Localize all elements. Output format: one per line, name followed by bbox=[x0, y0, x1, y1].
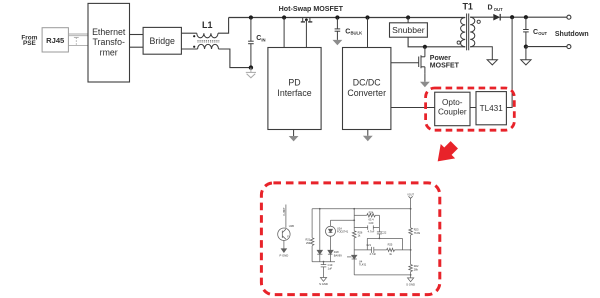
capacitor CBULK bbox=[335, 18, 341, 40]
wire Ethernet Transformer to Bridge (bottom) bbox=[130, 46, 144, 48]
resistor R21 bbox=[306, 209, 314, 262]
transistor hot-swap MOSFET symbol bbox=[301, 18, 313, 22]
svg-text:Power: Power bbox=[430, 55, 451, 62]
wire L1 bottom output to CIN bottom node bbox=[218, 49, 251, 68]
svg-text:R24: R24 bbox=[369, 211, 374, 215]
wire node A vertical bbox=[353, 209, 355, 231]
transistor U2B phototransistor lead bbox=[285, 205, 287, 228]
label COUT bbox=[533, 29, 547, 36]
capacitor (stub between RJ45 pair) bbox=[74, 37, 79, 45]
svg-text:R25: R25 bbox=[388, 242, 393, 246]
wire bottom bus bbox=[354, 274, 410, 276]
wire to bottom output terminal bbox=[526, 46, 567, 48]
terminal output plus bbox=[567, 15, 571, 19]
wire Bridge to L1 (bottom) bbox=[181, 48, 197, 50]
ground below power MOSFET bbox=[420, 74, 430, 88]
svg-text:OUT: OUT bbox=[494, 7, 503, 12]
block Ethernet Transformer bbox=[88, 3, 130, 82]
wire Opto-Coupler to TL431 bbox=[470, 107, 476, 109]
node junction DC/DC tap bbox=[365, 15, 369, 19]
svg-text:28k: 28k bbox=[414, 267, 419, 271]
wire RJ45 to Ethernet Transformer (bottom) bbox=[68, 45, 88, 47]
shunt reference U4 TL431 bbox=[347, 255, 367, 275]
node junction CBULK top bbox=[335, 15, 339, 19]
svg-text:S GND: S GND bbox=[319, 282, 328, 286]
transformer T1 primary phase dot bbox=[457, 41, 460, 44]
svg-text:C22: C22 bbox=[382, 230, 387, 234]
svg-text:OUT: OUT bbox=[538, 31, 547, 36]
block Snubber bbox=[390, 23, 428, 37]
label Power MOSFET bbox=[430, 55, 460, 69]
svg-text:Hot-Swap MOSFET: Hot-Swap MOSFET bbox=[279, 5, 344, 13]
diode D17 bbox=[317, 208, 322, 262]
block DC/DC Converter bbox=[343, 48, 391, 130]
detailed schematic group bbox=[278, 194, 421, 287]
block TL431 bbox=[476, 92, 506, 125]
highlight box around Opto-Coupler and TL431 bbox=[426, 88, 515, 130]
node junction COUT bottom bbox=[524, 45, 528, 49]
capacitor CIN bbox=[248, 18, 254, 68]
resistor R22 bbox=[409, 249, 419, 275]
wire output rail bbox=[500, 16, 567, 18]
svg-text:T1: T1 bbox=[462, 1, 473, 11]
node junction snubber tap bbox=[406, 15, 410, 19]
wire rail to PD Interface bbox=[283, 18, 285, 48]
inductor L1 top winding bbox=[193, 33, 218, 38]
node junction drain bbox=[423, 45, 427, 49]
node junction CIN bottom bbox=[249, 65, 253, 69]
svg-text:4.7nF: 4.7nF bbox=[369, 252, 376, 256]
node junction COUT top bbox=[524, 15, 528, 19]
block Opto-Coupler bbox=[435, 92, 470, 126]
svg-text:Transfo-: Transfo- bbox=[92, 37, 124, 47]
capacitor C19 bbox=[321, 261, 333, 278]
wire feedback to TL431 bbox=[506, 17, 512, 107]
block RJ45 bbox=[42, 28, 68, 52]
transformer T1 primary winding bbox=[461, 18, 466, 47]
transformer T1 secondary phase dot bbox=[477, 20, 480, 23]
svg-text:FOD2741: FOD2741 bbox=[337, 230, 349, 234]
svg-text:TL431: TL431 bbox=[359, 263, 367, 267]
svg-text:Ethernet: Ethernet bbox=[92, 27, 126, 37]
inductor L1 core bbox=[197, 41, 219, 42]
svg-text:294: 294 bbox=[306, 241, 311, 245]
svg-text:Bridge: Bridge bbox=[149, 36, 175, 46]
node From PSE label bbox=[21, 34, 37, 47]
ground SGND right bbox=[406, 275, 415, 287]
wire hot-swap gate to PD Interface bbox=[305, 20, 307, 48]
wire secondary bottom to ground bbox=[470, 47, 492, 60]
svg-text:Shutdown: Shutdown bbox=[555, 31, 589, 38]
diode DOUT bbox=[493, 14, 500, 21]
svg-text:4.7nF: 4.7nF bbox=[368, 229, 375, 233]
label DOUT bbox=[488, 5, 504, 12]
svg-text:63.4: 63.4 bbox=[368, 218, 374, 222]
opto U2A LED bbox=[326, 220, 349, 236]
node A junction bbox=[353, 208, 355, 210]
wire Ethernet Transformer to Bridge (top) bbox=[130, 34, 144, 36]
node junction bottom bbox=[410, 274, 412, 276]
svg-text:DC/DC: DC/DC bbox=[353, 78, 382, 88]
transistor U2B phototransistor bbox=[278, 228, 290, 240]
ground below CIN bbox=[246, 68, 256, 78]
svg-text:P GND: P GND bbox=[279, 253, 288, 257]
svg-text:PSE: PSE bbox=[23, 40, 37, 47]
svg-text:rmer: rmer bbox=[100, 47, 118, 57]
node junction feedback tap bbox=[510, 15, 514, 19]
svg-text:U2B: U2B bbox=[289, 224, 294, 228]
wire top bus bbox=[312, 208, 411, 210]
ground secondary bbox=[487, 60, 497, 65]
wire left ladder bottom bbox=[312, 261, 335, 263]
svg-text:Opto-: Opto- bbox=[442, 98, 463, 107]
svg-text:Snubber: Snubber bbox=[392, 25, 425, 35]
wire COUT bottom to ground bbox=[525, 47, 527, 60]
svg-text:D: D bbox=[488, 5, 493, 12]
diode D18 bbox=[328, 236, 342, 261]
svg-text:Coupler: Coupler bbox=[438, 108, 467, 117]
wire Snubber to drain node bbox=[408, 37, 465, 47]
highlight box around detailed schematic bbox=[261, 183, 439, 295]
svg-text:R21: R21 bbox=[306, 238, 311, 242]
wire DC/DC to Opto-Coupler bbox=[391, 107, 435, 109]
label CIN bbox=[256, 35, 265, 42]
svg-text:C20: C20 bbox=[369, 221, 374, 225]
svg-text:Interface: Interface bbox=[277, 88, 311, 98]
ground below PD Interface bbox=[289, 130, 299, 142]
wire RJ45 to Ethernet Transformer (top pair) bbox=[68, 34, 88, 36]
wire L1 top output to rail bbox=[218, 18, 229, 34]
node junction PD tap bbox=[282, 15, 286, 19]
inductor L1 bottom winding bbox=[193, 44, 218, 49]
capacitor COUT bbox=[523, 17, 529, 46]
arrow zoom callout bbox=[430, 138, 461, 169]
resistor R26 bbox=[352, 230, 363, 255]
node junction CIN top bbox=[249, 15, 253, 19]
RC network R24 C20 bbox=[354, 211, 379, 234]
ground below COUT bbox=[521, 60, 531, 65]
wire secondary top to diode bbox=[470, 16, 493, 18]
transformer T1 secondary winding bbox=[470, 17, 475, 47]
resistor R23 bbox=[409, 208, 421, 250]
svg-text:BAV99: BAV99 bbox=[334, 253, 342, 257]
label CBULK bbox=[345, 28, 362, 35]
svg-text:76.8k: 76.8k bbox=[414, 231, 421, 235]
svg-text:I LIMIT: I LIMIT bbox=[282, 207, 286, 216]
transformer T1 core bbox=[467, 14, 469, 51]
ground below DC/DC Converter bbox=[363, 130, 373, 142]
block Bridge bbox=[143, 27, 181, 54]
node VOUT bbox=[407, 194, 414, 209]
svg-text:C21: C21 bbox=[366, 243, 371, 247]
svg-text:PD: PD bbox=[288, 78, 300, 88]
wire Bridge to L1 (top) bbox=[181, 32, 196, 34]
wire rail to Snubber bbox=[407, 18, 409, 23]
wire rail to DC/DC bbox=[367, 18, 369, 48]
wire U2B emitter to PGND bbox=[283, 240, 285, 248]
ground PGND bbox=[281, 249, 286, 253]
capacitor C22 bbox=[377, 228, 387, 240]
terminal output minus bbox=[567, 45, 571, 49]
svg-text:BULK: BULK bbox=[351, 31, 363, 36]
wire opto anode to node bbox=[331, 219, 355, 221]
wire top rail (primary side) bbox=[229, 17, 466, 19]
block PD Interface bbox=[268, 48, 321, 130]
ground below CBULK bbox=[333, 40, 343, 45]
svg-text:1uF: 1uF bbox=[328, 266, 333, 270]
transistor power MOSFET bbox=[391, 47, 425, 74]
svg-text:RJ45: RJ45 bbox=[46, 36, 65, 45]
svg-text:MOSFET: MOSFET bbox=[430, 63, 460, 70]
svg-text:L1: L1 bbox=[202, 20, 213, 30]
svg-text:TL431: TL431 bbox=[480, 104, 504, 113]
ground SGND left bbox=[319, 278, 328, 287]
loop C21 R25 bbox=[354, 238, 410, 256]
svg-text:IN: IN bbox=[261, 37, 265, 42]
svg-text:S GND: S GND bbox=[406, 283, 415, 287]
svg-text:VOUT: VOUT bbox=[407, 194, 414, 197]
svg-text:Converter: Converter bbox=[347, 88, 386, 98]
